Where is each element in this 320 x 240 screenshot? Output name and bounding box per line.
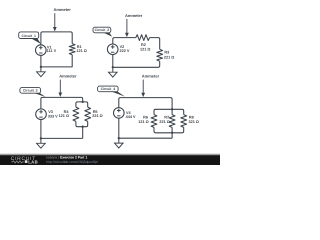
- svg-text:222 V: 222 V: [120, 49, 130, 53]
- svg-text:221 Ω: 221 Ω: [92, 114, 102, 118]
- svg-text:R6: R6: [143, 115, 148, 119]
- svg-text:221 Ω: 221 Ω: [159, 120, 169, 124]
- svg-text:Circuit_2: Circuit_2: [95, 28, 110, 32]
- svg-text:Ammeter: Ammeter: [59, 73, 77, 78]
- svg-text:Circuit_1: Circuit_1: [21, 34, 36, 38]
- svg-text:121 Ω: 121 Ω: [140, 47, 150, 51]
- svg-text:333 V: 333 V: [48, 114, 58, 118]
- svg-text:Ammeter: Ammeter: [54, 7, 72, 12]
- svg-text:R7: R7: [164, 115, 169, 119]
- svg-text:R3: R3: [164, 51, 169, 55]
- svg-text:Ammeter: Ammeter: [142, 73, 160, 78]
- svg-text:Circuit_4: Circuit_4: [101, 87, 116, 91]
- svg-text:R8: R8: [189, 115, 194, 119]
- svg-text:321 Ω: 321 Ω: [189, 120, 199, 124]
- svg-text:444 V: 444 V: [126, 115, 136, 119]
- svg-text:Circuit_3: Circuit_3: [23, 89, 38, 93]
- svg-text:121 Ω: 121 Ω: [76, 49, 86, 53]
- svg-text:121 Ω: 121 Ω: [138, 120, 148, 124]
- svg-text:221 Ω: 221 Ω: [164, 55, 174, 59]
- svg-text:kabaria | Exercise 2 Part 1: kabaria | Exercise 2 Part 1: [46, 156, 87, 160]
- svg-text:Ammeter: Ammeter: [125, 13, 143, 18]
- svg-text:LAB: LAB: [28, 160, 38, 165]
- svg-text:http://circuitlab.com/c/36j5qk: http://circuitlab.com/c/36j5qkun8jd: [46, 160, 97, 164]
- svg-text:111 V: 111 V: [47, 49, 57, 53]
- svg-text:121 Ω: 121 Ω: [59, 114, 69, 118]
